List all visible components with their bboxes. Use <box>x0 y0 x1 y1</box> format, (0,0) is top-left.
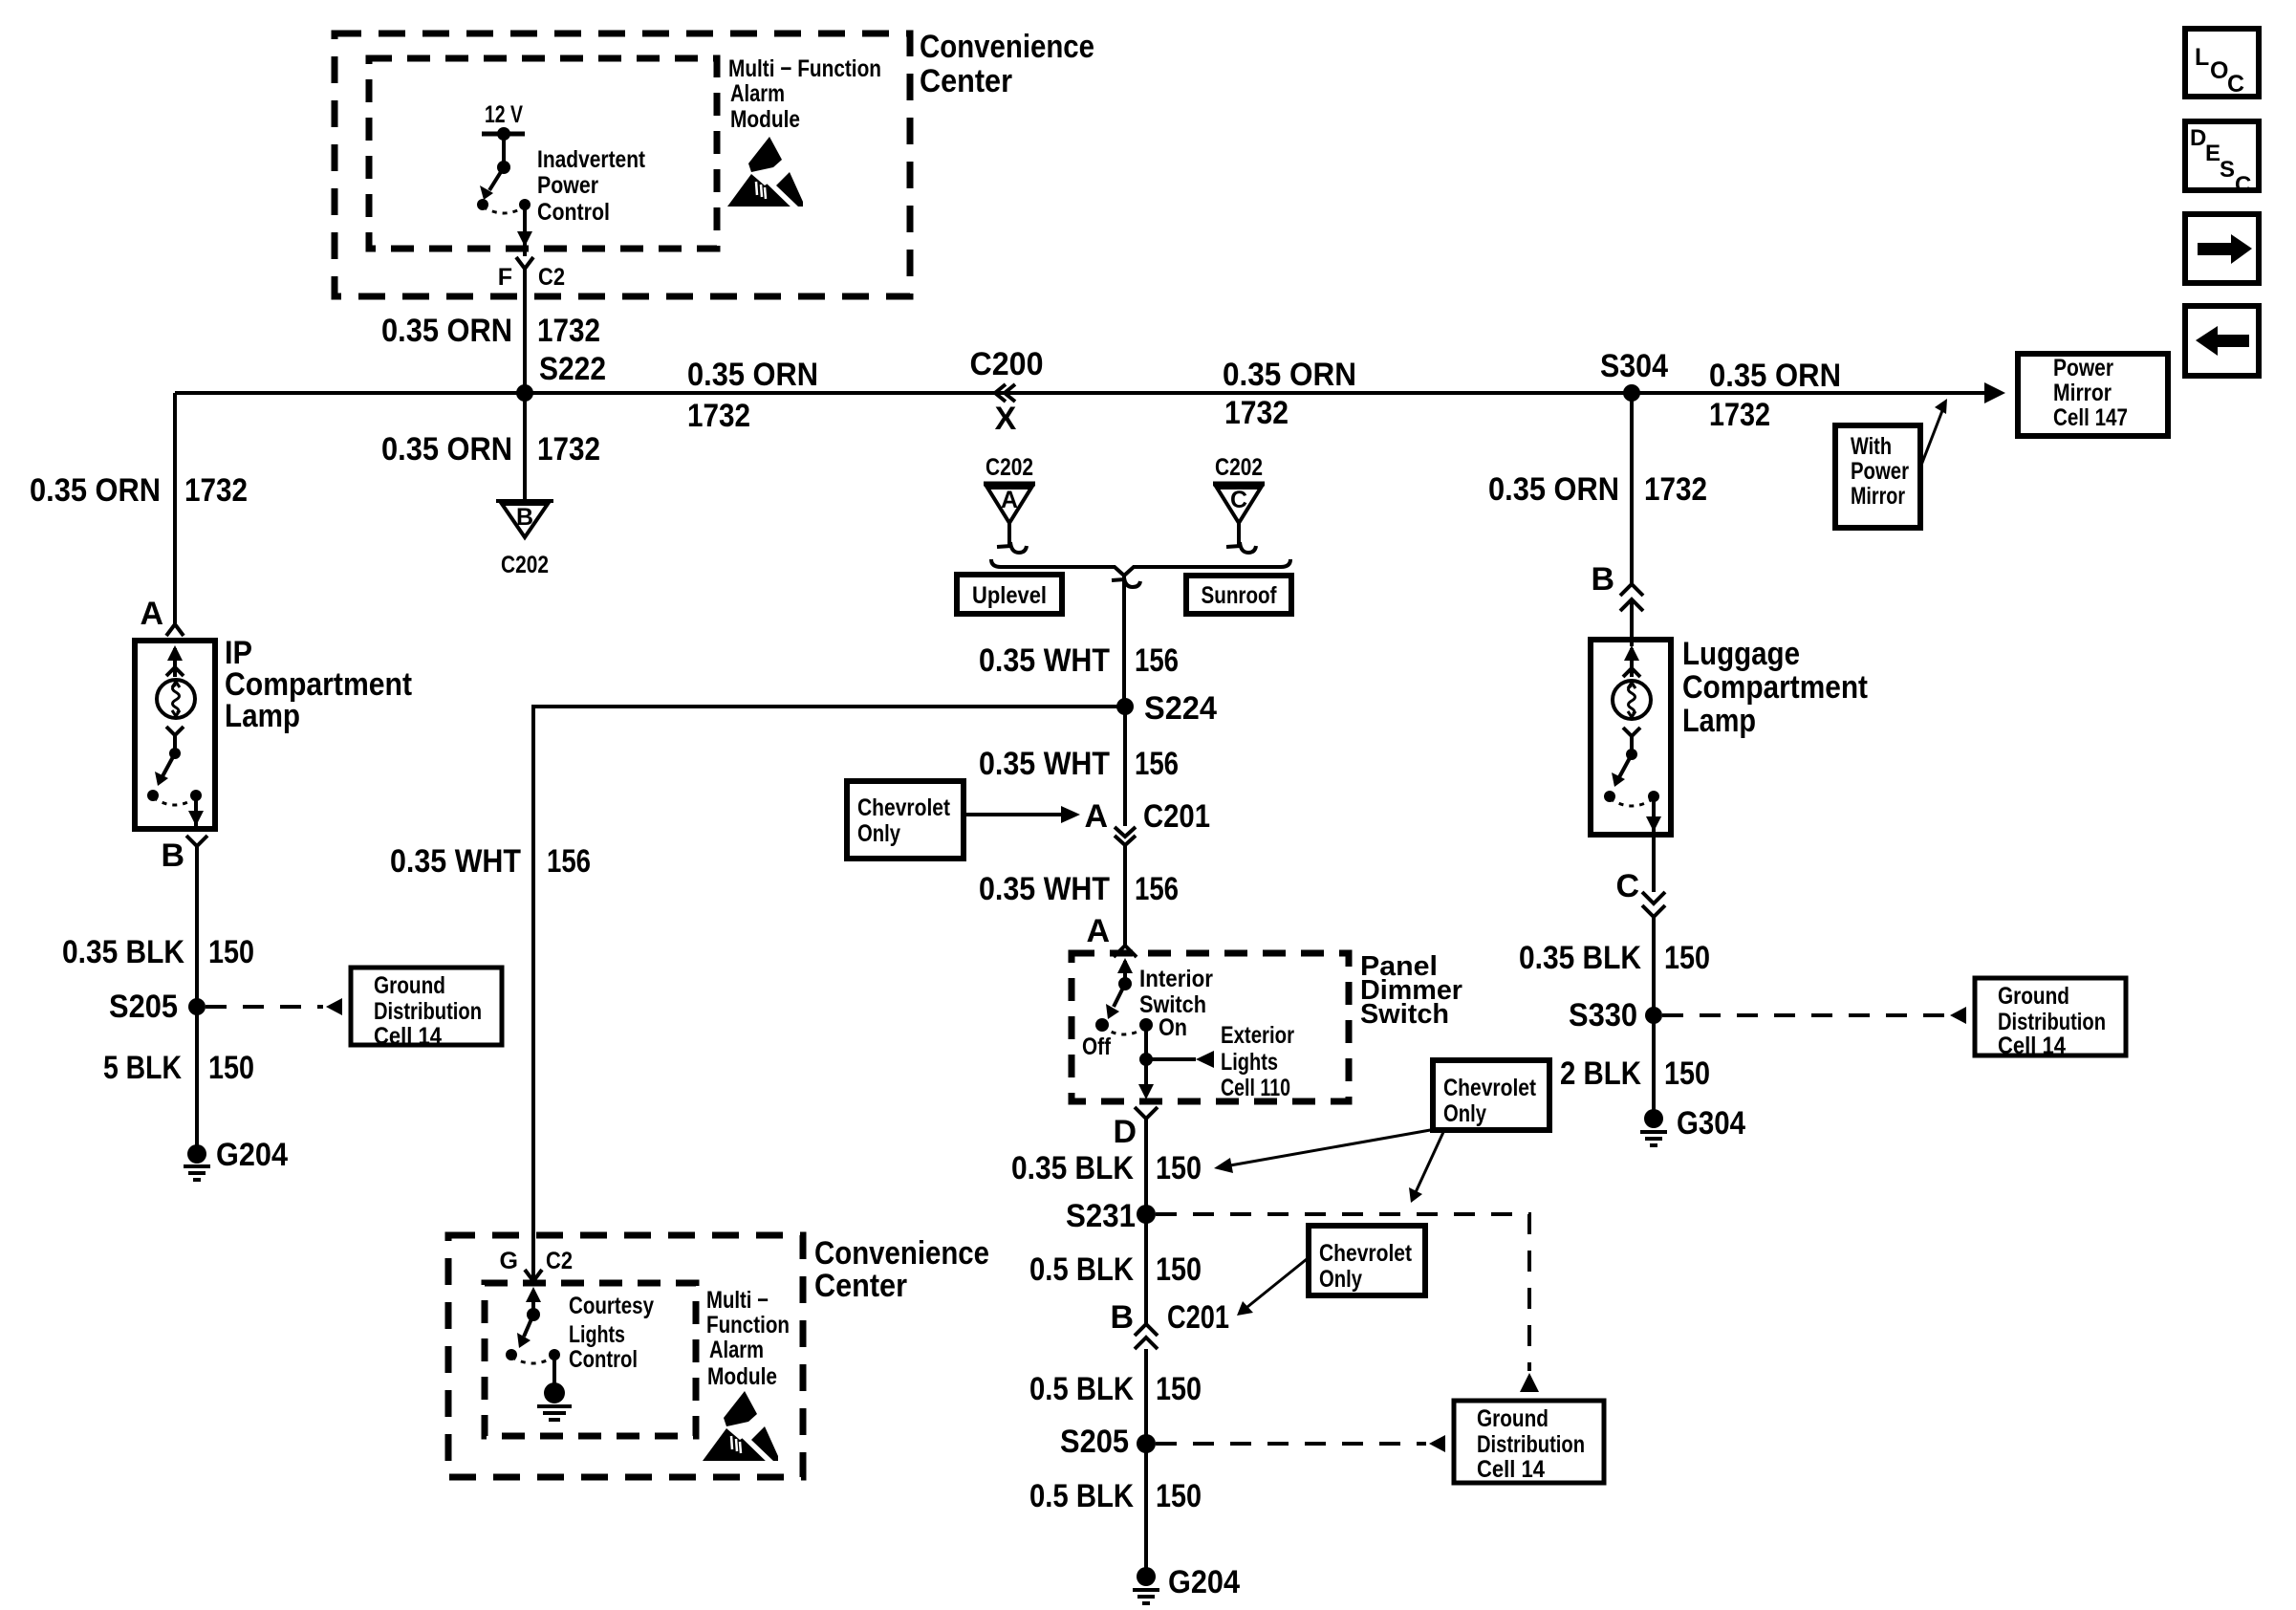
svg-text:S205: S205 <box>1060 1424 1129 1460</box>
wire On contact down and out of dimmer box <box>1138 1025 1154 1099</box>
svg-text:Distribution: Distribution <box>374 998 482 1025</box>
splice S231 <box>1066 1198 1156 1234</box>
IP lamp internals: entry arrow <box>166 645 184 677</box>
svg-text:Interior: Interior <box>1139 966 1213 992</box>
svg-text:Cell 147: Cell 147 <box>2053 404 2128 431</box>
svg-text:G204: G204 <box>216 1137 288 1173</box>
dashed reference S205 to Ground Distribution <box>206 998 342 1015</box>
back arrow box <box>2185 306 2259 376</box>
svg-text:0.35 ORN: 0.35 ORN <box>381 431 512 468</box>
wire F C2 to S222 to C202 B <box>523 269 527 499</box>
connector A C201 <box>1084 798 1210 845</box>
wire S205 to G204 (bottom) <box>1144 1444 1148 1568</box>
pin B (IP lamp) <box>161 836 207 874</box>
Convenience Center label (top) <box>920 29 1094 99</box>
dashed reference S205 to Ground Distribution (bottom) <box>1156 1435 1445 1452</box>
svg-text:S: S <box>2220 157 2235 183</box>
label 0.5 BLK 150 (C201 to S205) <box>1029 1371 1202 1407</box>
svg-text:0.35 BLK: 0.35 BLK <box>62 934 184 970</box>
svg-text:1732: 1732 <box>1224 395 1289 431</box>
svg-text:12 V: 12 V <box>485 101 523 128</box>
svg-text:0.35 ORN: 0.35 ORN <box>1223 357 1356 393</box>
wire main to IP lamp (left drop) <box>173 393 177 623</box>
label 0.35 BLK 150 (D to S231) <box>1011 1150 1202 1186</box>
Ground Distribution Cell 14 box (right) <box>1975 978 2126 1059</box>
Chevrolet Only box (lower) <box>1309 1226 1425 1295</box>
svg-text:Module: Module <box>707 1363 777 1390</box>
dashed reference S231 to Ground Distribution (bottom) <box>1156 1214 1529 1371</box>
svg-text:0.5 BLK: 0.5 BLK <box>1029 1478 1134 1514</box>
svg-text:1732: 1732 <box>1709 397 1770 433</box>
pin A (panel dimmer switch) <box>1086 913 1137 957</box>
label 0.5 BLK 150 (S205 to G204) <box>1029 1478 1202 1514</box>
wire B C201 to S205 <box>1144 1349 1148 1444</box>
pin A (IP lamp) <box>140 596 184 636</box>
arrow Chevrolet Only to 150 label <box>1214 1129 1436 1173</box>
svg-text:G304: G304 <box>1677 1105 1745 1142</box>
label 0.5 BLK 150 (S231 to C201) <box>1029 1251 1202 1288</box>
svg-text:150: 150 <box>1664 1055 1710 1092</box>
svg-text:150: 150 <box>208 934 254 970</box>
svg-text:Distribution: Distribution <box>1998 1009 2106 1035</box>
label 0.35 ORN 1732 (below S222) <box>381 431 600 468</box>
Luggage Compartment Lamp label <box>1682 636 1868 739</box>
svg-text:0.35 WHT: 0.35 WHT <box>979 871 1110 907</box>
svg-text:Exterior: Exterior <box>1221 1022 1294 1049</box>
forward arrow box <box>2185 214 2259 283</box>
svg-text:C2: C2 <box>546 1248 573 1274</box>
arrow from With Power Mirror box to wire <box>1920 399 1947 468</box>
branch to Exterior Lights <box>1146 1051 1214 1068</box>
svg-text:Cell 14: Cell 14 <box>374 1023 442 1050</box>
svg-text:0.35 ORN: 0.35 ORN <box>1488 471 1619 508</box>
IP Compartment Lamp box <box>135 641 215 829</box>
Convenience Center enclosure (top) <box>335 33 910 296</box>
svg-text:0.35 WHT: 0.35 WHT <box>390 843 521 880</box>
wire S224 down to C201 <box>1123 707 1127 826</box>
label 0.35 WHT 156 (S224 to C201) <box>979 746 1179 782</box>
Luggage Compartment Lamp box <box>1591 640 1671 835</box>
svg-text:Convenience: Convenience <box>814 1235 989 1272</box>
connector B C201 <box>1110 1299 1229 1349</box>
svg-text:Cell 110: Cell 110 <box>1221 1075 1290 1101</box>
Courtesy Lights Control label <box>569 1293 654 1373</box>
svg-text:Chevrolet: Chevrolet <box>1319 1240 1413 1267</box>
svg-text:G: G <box>500 1248 518 1274</box>
svg-text:0.5 BLK: 0.5 BLK <box>1029 1251 1134 1288</box>
svg-text:D: D <box>2190 125 2206 151</box>
svg-text:Luggage: Luggage <box>1682 636 1800 672</box>
main wire from IP lamp branch to Power Mirror <box>175 391 1987 395</box>
label 0.35 ORN 1732 (left drop) <box>30 472 248 509</box>
svg-text:C202: C202 <box>1215 454 1263 481</box>
svg-text:Function: Function <box>706 1312 790 1338</box>
svg-text:C: C <box>1230 487 1247 513</box>
splice S205 (bottom) <box>1060 1424 1156 1460</box>
Exterior Lights Cell 110 label <box>1221 1022 1294 1101</box>
Convenience Center enclosure (bottom) <box>448 1235 803 1477</box>
svg-text:150: 150 <box>1156 1150 1202 1186</box>
svg-text:Multi − Function: Multi − Function <box>728 55 881 82</box>
junction S304 <box>1600 348 1668 402</box>
svg-text:E: E <box>2205 141 2220 166</box>
Ground Distribution Cell 14 box (bottom) <box>1454 1401 1604 1483</box>
svg-text:0.35 ORN: 0.35 ORN <box>687 357 818 393</box>
svg-text:F: F <box>498 264 512 291</box>
connector F C2 <box>498 257 565 291</box>
Convenience Center label (bottom) <box>814 1235 989 1304</box>
wire S224 to courtesy lights branch <box>533 707 1125 1281</box>
svg-text:A: A <box>140 596 163 632</box>
svg-text:On: On <box>1159 1014 1187 1041</box>
svg-text:0.35 ORN: 0.35 ORN <box>30 472 161 509</box>
svg-text:156: 156 <box>1135 871 1179 907</box>
svg-text:C201: C201 <box>1143 798 1210 835</box>
svg-text:C200: C200 <box>970 346 1044 382</box>
pigtail under C202 C <box>1226 523 1256 553</box>
svg-text:B: B <box>1591 561 1614 598</box>
arrow Chevrolet Only to S231 dashed line <box>1409 1130 1444 1203</box>
svg-text:Lamp: Lamp <box>1682 703 1756 739</box>
wire S304 down to luggage lamp <box>1630 393 1634 584</box>
Chevrolet Only box (upper) <box>847 781 964 859</box>
svg-text:150: 150 <box>1664 940 1710 976</box>
label 0.35 WHT 156 (above S224) <box>979 642 1179 679</box>
luggage lamp internals: entry arrow <box>1623 645 1640 677</box>
Interior Switch label <box>1139 966 1213 1018</box>
Sunroof box <box>1186 576 1291 614</box>
DESC box <box>2185 121 2259 198</box>
svg-text:Power: Power <box>537 172 598 199</box>
ground G204 (left) <box>184 1137 288 1180</box>
ground G204 (bottom) <box>1133 1564 1240 1603</box>
Ground Distribution Cell 14 box (left) <box>351 968 502 1050</box>
Multi-Function Alarm Module label (bottom) <box>706 1287 790 1390</box>
luggage lamp bulb <box>1613 681 1651 719</box>
svg-text:B: B <box>1110 1299 1134 1336</box>
svg-text:Off: Off <box>1082 1033 1112 1060</box>
svg-text:5 BLK: 5 BLK <box>103 1050 182 1086</box>
svg-text:Alarm: Alarm <box>730 80 785 107</box>
arrow Chevrolet Only (lower) to C201 <box>1237 1259 1307 1316</box>
svg-text:S330: S330 <box>1569 997 1637 1033</box>
svg-text:Cell 14: Cell 14 <box>1477 1456 1545 1483</box>
svg-text:0.35 BLK: 0.35 BLK <box>1011 1150 1134 1186</box>
svg-text:1732: 1732 <box>184 472 248 509</box>
splice S224 <box>1116 690 1217 727</box>
svg-text:150: 150 <box>208 1050 254 1086</box>
arrowhead into Ground Distribution (bottom, from S231) <box>1520 1373 1539 1392</box>
brace joining C202 A and C <box>991 559 1290 576</box>
pigtail under brace <box>1112 576 1140 587</box>
svg-text:Power: Power <box>2053 355 2113 381</box>
Chevrolet Only box (right of dimmer) <box>1433 1060 1549 1130</box>
arrow Chevrolet Only to A C201 <box>965 806 1080 823</box>
svg-text:L: L <box>2195 44 2209 71</box>
label 5 BLK 150 (left) <box>103 1050 254 1086</box>
in-line connector C200 <box>970 346 1044 437</box>
svg-text:1732: 1732 <box>1644 471 1707 508</box>
svg-text:Uplevel: Uplevel <box>972 582 1047 609</box>
svg-text:Mirror: Mirror <box>1851 483 1905 510</box>
wire brace to S224 <box>1122 585 1126 707</box>
svg-text:2 BLK: 2 BLK <box>1560 1055 1641 1092</box>
svg-text:B: B <box>161 838 184 874</box>
svg-text:150: 150 <box>1156 1251 1202 1288</box>
svg-text:Mirror: Mirror <box>2053 380 2112 406</box>
svg-text:Module: Module <box>730 106 800 133</box>
svg-text:Convenience: Convenience <box>920 29 1094 65</box>
svg-text:C: C <box>2235 172 2251 198</box>
splice S330 <box>1569 997 1662 1033</box>
svg-text:0.35 WHT: 0.35 WHT <box>979 642 1110 679</box>
svg-text:C: C <box>1615 868 1639 904</box>
ground G304 <box>1640 1105 1745 1145</box>
svg-text:0.35 WHT: 0.35 WHT <box>979 746 1110 782</box>
svg-text:156: 156 <box>547 843 591 880</box>
svg-text:Lights: Lights <box>1221 1049 1278 1076</box>
svg-text:A: A <box>1086 913 1110 949</box>
Inadvertent Power Control label <box>537 146 646 226</box>
svg-text:Only: Only <box>1319 1266 1362 1293</box>
label 0.35 ORN 1732 (segment S304 to Power Mirror) <box>1709 358 1841 433</box>
Uplevel box <box>957 575 1062 614</box>
label 0.35 ORN 1732 (S304 drop) <box>1488 471 1707 508</box>
svg-text:Center: Center <box>920 63 1012 99</box>
svg-text:Cell 14: Cell 14 <box>1998 1033 2066 1059</box>
Panel Dimmer Switch label <box>1360 951 1462 1030</box>
wire C201 to panel dimmer switch <box>1123 845 1127 945</box>
label 2 BLK 150 (right) <box>1560 1055 1710 1092</box>
wire C to G304 <box>1652 917 1656 1110</box>
label 0.35 WHT 156 (C201 to dimmer) <box>979 871 1179 907</box>
IP Compartment Lamp label <box>225 635 412 734</box>
svg-text:C2: C2 <box>538 264 565 291</box>
svg-text:1732: 1732 <box>687 398 750 434</box>
svg-text:Courtesy: Courtesy <box>569 1293 654 1319</box>
svg-text:G204: G204 <box>1168 1564 1240 1600</box>
svg-text:D: D <box>1113 1114 1137 1150</box>
label 0.35 BLK 150 (left) <box>62 934 254 970</box>
wire S231 to B C201 <box>1144 1214 1148 1324</box>
svg-text:B: B <box>516 504 533 531</box>
svg-text:C202: C202 <box>501 552 549 578</box>
svg-text:Ground: Ground <box>1477 1405 1549 1432</box>
IP lamp door switch <box>147 727 204 828</box>
svg-text:S304: S304 <box>1600 348 1668 384</box>
splice S205 (left) <box>109 989 206 1025</box>
label 0.35 WHT 156 (branch to courtesy) <box>390 843 591 880</box>
svg-text:Center: Center <box>814 1268 907 1304</box>
svg-text:S222: S222 <box>539 351 606 387</box>
svg-text:O: O <box>2210 57 2228 84</box>
inadvertent power control switch <box>477 134 532 256</box>
svg-text:0.5 BLK: 0.5 BLK <box>1029 1371 1134 1407</box>
label 0.35 ORN 1732 (above S222) <box>381 313 600 349</box>
Power Mirror Cell 147 box <box>2018 354 2168 436</box>
svg-text:Lamp: Lamp <box>225 698 300 734</box>
svg-text:Ground: Ground <box>374 972 445 999</box>
dashed reference S330 to Ground Distribution (right) <box>1662 1007 1966 1024</box>
svg-text:Chevrolet: Chevrolet <box>1443 1075 1537 1101</box>
svg-text:Control: Control <box>569 1346 638 1373</box>
interior switch (panel dimmer) <box>1095 958 1153 1034</box>
wire D to S231 <box>1144 1119 1148 1214</box>
svg-text:With: With <box>1851 433 1892 460</box>
svg-text:Multi −: Multi − <box>706 1287 769 1314</box>
svg-text:Power: Power <box>1851 458 1909 485</box>
svg-text:S205: S205 <box>109 989 178 1025</box>
svg-text:1732: 1732 <box>537 431 600 468</box>
With Power Mirror box <box>1835 425 1920 528</box>
label 0.35 BLK 150 (right) <box>1519 940 1710 976</box>
svg-text:Alarm: Alarm <box>709 1337 764 1363</box>
svg-text:150: 150 <box>1156 1478 1202 1514</box>
connector G C2 <box>500 1248 573 1281</box>
pin C (luggage lamp) <box>1615 868 1665 917</box>
label 0.35 ORN 1732 (segment C200 to S304) <box>1223 357 1356 431</box>
arrowhead into Power Mirror <box>1984 382 2005 403</box>
svg-text:Switch: Switch <box>1360 999 1449 1030</box>
svg-text:Chevrolet: Chevrolet <box>857 794 951 821</box>
IP lamp bulb <box>157 680 195 718</box>
Courtesy Lights Control enclosure <box>485 1283 696 1436</box>
Multi-Function Alarm Module label (top) <box>728 55 881 133</box>
svg-text:Only: Only <box>857 820 900 847</box>
svg-text:Only: Only <box>1443 1100 1486 1127</box>
svg-text:A: A <box>1001 487 1018 513</box>
svg-text:1732: 1732 <box>537 313 600 349</box>
svg-text:Inadvertent: Inadvertent <box>537 146 646 173</box>
svg-text:150: 150 <box>1156 1371 1202 1407</box>
LOC box <box>2185 29 2259 98</box>
svg-text:A: A <box>1084 798 1108 835</box>
svg-text:Compartment: Compartment <box>1682 669 1868 706</box>
svg-text:Sunroof: Sunroof <box>1202 582 1278 609</box>
12 V supply bar <box>482 127 525 141</box>
connector C202 A triangle <box>984 454 1035 523</box>
luggage lamp door switch <box>1604 728 1661 834</box>
svg-text:156: 156 <box>1135 642 1179 679</box>
wire B to luggage lamp box <box>1630 599 1634 646</box>
svg-text:C201: C201 <box>1167 1299 1229 1336</box>
pin B (luggage lamp) <box>1591 561 1643 611</box>
svg-text:156: 156 <box>1135 746 1179 782</box>
Panel Dimmer Switch enclosure <box>1072 953 1349 1101</box>
svg-text:S231: S231 <box>1066 1198 1136 1234</box>
svg-text:Lights: Lights <box>569 1321 625 1348</box>
ESD symbol (top alarm module) <box>727 137 806 212</box>
ESD symbol (bottom alarm module) <box>703 1391 781 1467</box>
svg-text:Ground: Ground <box>1998 983 2069 1010</box>
svg-text:Control: Control <box>537 199 610 226</box>
svg-text:C: C <box>2227 71 2244 98</box>
Inadvertent Power Control enclosure <box>369 58 717 249</box>
wire IP lamp to G204 <box>195 846 199 1145</box>
svg-text:0.35 ORN: 0.35 ORN <box>381 313 512 349</box>
ground symbol (courtesy lights control) <box>537 1382 572 1420</box>
connector C202 C triangle <box>1213 454 1265 523</box>
svg-text:X: X <box>995 401 1017 437</box>
courtesy lights control switch <box>506 1287 560 1383</box>
svg-text:C202: C202 <box>986 454 1033 481</box>
pigtail under C202 A <box>997 523 1027 553</box>
pin D (panel dimmer switch) <box>1113 1107 1158 1150</box>
svg-text:0.35 BLK: 0.35 BLK <box>1519 940 1641 976</box>
label 0.35 ORN 1732 (segment S222 to C200) <box>687 357 818 434</box>
connector C202 B triangle <box>496 501 553 578</box>
wire luggage lamp to C connector <box>1652 835 1656 892</box>
svg-text:Distribution: Distribution <box>1477 1431 1585 1458</box>
svg-text:S224: S224 <box>1144 690 1217 727</box>
junction S222 <box>516 351 606 402</box>
svg-text:0.35 ORN: 0.35 ORN <box>1709 358 1841 394</box>
